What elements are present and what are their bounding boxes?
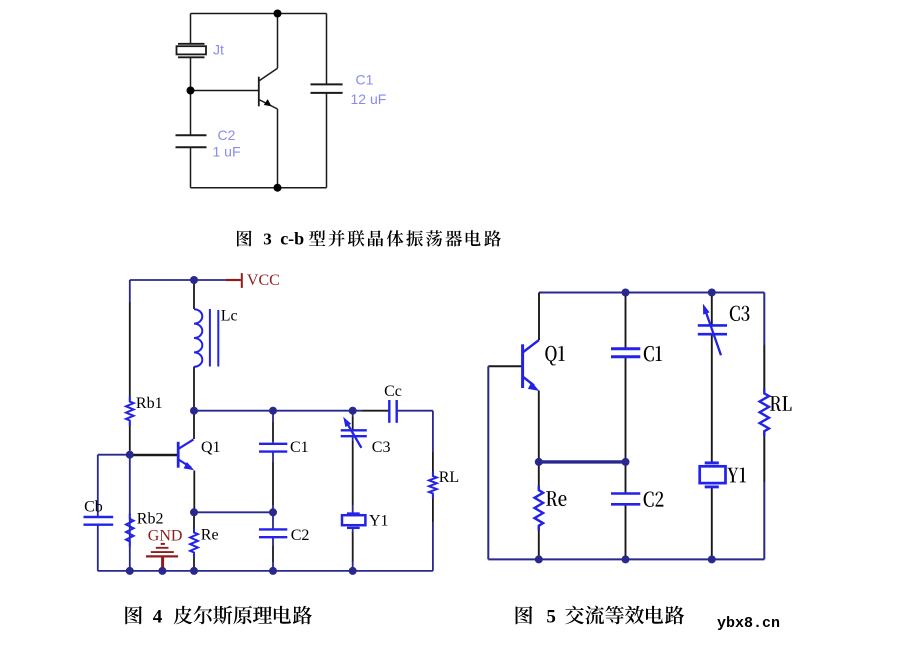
wire: emitter down to bottom rail bbox=[277, 109, 279, 188]
capacitor Cb plates bbox=[84, 517, 114, 525]
node: fig4 collector junction bbox=[190, 407, 198, 415]
wire: fig5 collector vertical bbox=[538, 293, 540, 341]
node: fig4 C1 top junction bbox=[269, 407, 277, 415]
wire: Re stubs bbox=[193, 512, 195, 531]
wire: fig4 bottom rail bbox=[98, 570, 433, 572]
label C3 fig5 bbox=[730, 306, 750, 322]
svg-text:Rb1: Rb1 bbox=[136, 395, 163, 412]
transistor Q1 fig4 base bar bbox=[177, 442, 180, 468]
variable capacitor C3 fig4 plates bbox=[341, 430, 367, 436]
variable capacitor C3 fig4 arrow shaft bbox=[348, 424, 362, 448]
variable capacitor C3 fig5 plates bbox=[698, 325, 727, 334]
transistor Q fig3 base bar bbox=[258, 77, 260, 107]
variable capacitor C3 fig5 arrow shaft bbox=[706, 312, 721, 355]
node: fig5 C3 top junction bbox=[708, 289, 716, 297]
wire: fig5 top rail bbox=[539, 292, 764, 294]
resistor Rb2 bbox=[126, 514, 134, 547]
wire: Q1 emitter down bbox=[193, 471, 195, 513]
svg-text:Re: Re bbox=[201, 527, 219, 544]
transistor Q1 fig5 emitter diagonal bbox=[523, 377, 534, 386]
node: fig5 emitter junction bbox=[535, 458, 543, 466]
svg-text:C1: C1 bbox=[356, 72, 374, 88]
capacitor C2 fig5 plates bbox=[611, 494, 640, 505]
resistor RL fig5 bbox=[760, 389, 769, 437]
Q1 fig5 emitter arrowhead bbox=[528, 382, 539, 391]
crystal Jt bbox=[177, 44, 207, 58]
node: fig4 bottom gnd junction bbox=[158, 567, 166, 575]
wire: fig5 left rail bbox=[487, 366, 489, 559]
node: fig4 bottom Re junction bbox=[190, 567, 198, 575]
node: fig5 bottom Re junction bbox=[535, 555, 543, 563]
wire: C3/Y1 branch bbox=[352, 411, 354, 417]
emitter arrow fig3 bbox=[264, 99, 272, 106]
node: fig3 bottom junction bbox=[274, 184, 282, 192]
capacitor C1 fig5 plates bbox=[611, 349, 640, 357]
svg-text:Rb2: Rb2 bbox=[137, 511, 164, 528]
caption figure 4 bbox=[125, 606, 312, 625]
wire: fig5 bottom rail bbox=[488, 558, 764, 560]
wire: base wire node A to transistor bbox=[191, 90, 259, 92]
crystal Y1 fig4 bbox=[342, 513, 365, 528]
node: fig5 bottom C2 junction bbox=[622, 555, 630, 563]
C3 fig4 arrowhead bbox=[343, 417, 351, 427]
node: fig4 bottom C2 junction bbox=[269, 567, 277, 575]
wire: fig3 left rail upper (to crystal) bbox=[190, 14, 192, 45]
wire: fig4 left rail bbox=[129, 280, 131, 302]
wire: emitter row to C1C2 node bbox=[194, 511, 273, 513]
resistor Re fig5 bbox=[535, 486, 544, 531]
svg-text:Q1: Q1 bbox=[201, 439, 221, 456]
node: fig4 emitter junction bbox=[190, 508, 198, 516]
caption figure 3 bbox=[237, 230, 501, 247]
node: fig3 top junction bbox=[274, 10, 282, 18]
node: fig5 bottom Y1 junction bbox=[708, 555, 716, 563]
wire: fig3 right rail lower bbox=[326, 93, 328, 188]
wire: collector up to top rail bbox=[277, 14, 279, 69]
wire: C1 branch bbox=[272, 411, 274, 422]
label Re fig5 bbox=[546, 491, 566, 506]
wire: fig5 Re stubs bbox=[538, 462, 540, 490]
svg-text:12 uF: 12 uF bbox=[351, 91, 387, 107]
wire: fig5 C1 branch bbox=[625, 293, 627, 349]
capacitor C1 fig4 plates bbox=[259, 444, 287, 452]
caption figure 5 bbox=[516, 606, 685, 625]
wire: fig4 right rail / RL branch bbox=[432, 411, 434, 452]
svg-text:RL: RL bbox=[439, 469, 459, 486]
wire: fig4 top rail to VCC bbox=[130, 279, 228, 281]
svg-text:Cb: Cb bbox=[84, 499, 103, 516]
node: fig4 C1C2 junction bbox=[269, 508, 277, 516]
transistor Q1 fig4 collector diagonal bbox=[179, 439, 194, 448]
node: fig5 C1C2 junction bbox=[622, 458, 630, 466]
wire: fig5 C3/Y1 branch bbox=[711, 293, 713, 326]
node: fig5 C1 top junction bbox=[622, 289, 630, 297]
wire: fig5 C2 branch bbox=[625, 462, 627, 493]
ground symbol bbox=[146, 543, 178, 571]
wire: fig3 right rail upper bbox=[326, 14, 328, 85]
wire: Cb branch vertical bbox=[97, 455, 99, 517]
label C2 fig5 bbox=[644, 492, 664, 508]
wire: fig5 emitter vertical bbox=[538, 391, 540, 462]
resistor RL fig4 bbox=[429, 472, 437, 499]
capacitor Cc plates (series, vertical) bbox=[389, 400, 396, 423]
wire: fig5 emitter row (thick) bbox=[539, 460, 626, 463]
label RL fig5 bbox=[770, 396, 792, 411]
capacitor C1 plates fig3 bbox=[311, 84, 343, 93]
inductor Lc coil bbox=[194, 309, 202, 367]
wire: fig5 base wire left bbox=[488, 365, 522, 367]
label C1 fig5 bbox=[644, 346, 662, 362]
svg-text:C2: C2 bbox=[291, 527, 310, 544]
wire: collector vertical above Lc bbox=[193, 280, 195, 309]
svg-text:C3: C3 bbox=[372, 439, 391, 456]
label Y1 fig5 bbox=[727, 468, 746, 483]
node: fig4 VCC rail junction bbox=[190, 276, 198, 284]
svg-text:Lc: Lc bbox=[221, 307, 238, 324]
wire: fig3 top rail bbox=[191, 13, 327, 15]
crystal Y1 fig5 bbox=[700, 463, 726, 487]
inductor Lc core bars bbox=[209, 309, 211, 367]
wire: Q1 base lead (thick) bbox=[130, 454, 178, 457]
node: fig4 bottom Rb2 junction bbox=[126, 567, 134, 575]
wire: fig3 bottom rail bbox=[191, 187, 327, 189]
Q1 fig4 emitter arrowhead bbox=[184, 462, 195, 470]
svg-text:C2: C2 bbox=[218, 127, 236, 143]
transistor Q fig3 collector bbox=[259, 68, 278, 81]
transistor Q1 fig4 emitter diagonal bbox=[179, 460, 192, 468]
svg-text:4: 4 bbox=[153, 607, 163, 628]
transistor Q1 fig5 collector diagonal bbox=[523, 340, 539, 353]
capacitor C2 plates bbox=[176, 135, 207, 147]
wire: fig5 right rail bbox=[763, 293, 765, 346]
wire: C2 to bottom rail bbox=[190, 147, 192, 187]
svg-text:GND: GND bbox=[148, 528, 183, 545]
wire: base node left to Cb branch bbox=[98, 454, 130, 456]
node: fig4 bottom Y1 junction bbox=[349, 567, 357, 575]
svg-text:VCC: VCC bbox=[247, 272, 280, 289]
node: fig4 C3 top junction bbox=[349, 407, 357, 415]
wire: collector row bbox=[194, 410, 362, 412]
resistor Rb1 bbox=[126, 396, 134, 425]
svg-text:Jt: Jt bbox=[213, 42, 224, 58]
capacitor C2 fig4 plates bbox=[259, 529, 287, 537]
svg-text:3: 3 bbox=[263, 229, 272, 248]
node: fig4 base junction bbox=[126, 451, 134, 459]
label Q1 fig5 bbox=[545, 346, 564, 366]
svg-text:Cc: Cc bbox=[384, 383, 402, 400]
C3 fig5 arrowhead bbox=[703, 304, 710, 315]
svg-text:c-b: c-b bbox=[280, 228, 304, 248]
VCC terminal bbox=[226, 273, 242, 288]
wire: crystal to node A bbox=[190, 57, 192, 135]
wire: collector node to Q1 bbox=[193, 411, 195, 439]
svg-text:5: 5 bbox=[546, 607, 556, 628]
wire: below Lc to collector node bbox=[193, 367, 195, 411]
svg-text:ybx8.cn: ybx8.cn bbox=[717, 615, 780, 632]
svg-text:C1: C1 bbox=[290, 439, 309, 456]
node A: fig3 base junction bbox=[187, 87, 195, 95]
transistor Q1 fig5 base bar bbox=[521, 344, 524, 388]
transistor Q fig3 emitter bbox=[259, 100, 278, 110]
svg-text:Y1: Y1 bbox=[369, 512, 389, 529]
svg-text:1 uF: 1 uF bbox=[213, 144, 241, 160]
resistor Re fig4 bbox=[190, 528, 198, 558]
